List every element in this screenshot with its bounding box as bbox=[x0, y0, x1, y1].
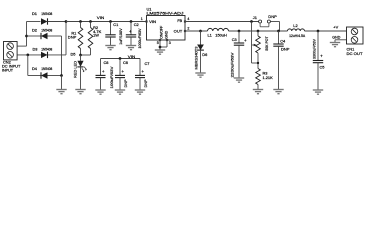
capacitor C6 DNP bbox=[115, 59, 128, 91]
node junction bbox=[25, 35, 28, 38]
node junction bbox=[65, 20, 68, 23]
wire bbox=[26, 22, 28, 47]
wire bbox=[270, 22, 279, 32]
ground bbox=[115, 90, 125, 94]
svg-text:4: 4 bbox=[187, 17, 189, 21]
wire bbox=[28, 55, 41, 76]
ground bbox=[126, 46, 136, 50]
svg-text:L2: L2 bbox=[293, 23, 297, 28]
node junction bbox=[238, 30, 241, 33]
resistor R3 1.21K bbox=[256, 69, 273, 90]
capacitor C4 DNP bbox=[273, 31, 290, 90]
ground bbox=[75, 90, 85, 94]
wire bbox=[160, 40, 167, 47]
wire bbox=[61, 76, 63, 90]
wire bbox=[17, 45, 26, 47]
svg-text:RED LED: RED LED bbox=[73, 61, 78, 78]
svg-text:100uF/63V: 100uF/63V bbox=[110, 66, 114, 89]
svg-text:GND: GND bbox=[164, 31, 169, 39]
svg-text:D6: D6 bbox=[202, 52, 207, 57]
svg-text:D4: D4 bbox=[32, 66, 38, 71]
svg-text:1uF/100V: 1uF/100V bbox=[118, 28, 123, 45]
svg-text:C1: C1 bbox=[113, 22, 118, 27]
svg-text:3: 3 bbox=[169, 41, 171, 45]
svg-text:C8: C8 bbox=[104, 60, 109, 65]
resistor R1 DNP bbox=[68, 22, 83, 56]
LED D5 RED LED bbox=[71, 52, 87, 90]
node junction bbox=[130, 20, 133, 23]
pin 4 bbox=[184, 17, 190, 23]
svg-text:DC OUT: DC OUT bbox=[347, 51, 364, 56]
svg-text:GND: GND bbox=[332, 34, 340, 39]
svg-text:DNP: DNP bbox=[144, 79, 148, 88]
svg-text:INPUT: INPUT bbox=[2, 67, 14, 72]
svg-text:DNP: DNP bbox=[281, 47, 290, 52]
wire bbox=[65, 22, 67, 55]
inductor L2 12uH/4.5A bbox=[288, 23, 306, 38]
wire FB wiper bbox=[252, 22, 259, 64]
svg-text:2200uF/63V: 2200uF/63V bbox=[230, 52, 235, 77]
node junction bbox=[199, 30, 202, 33]
diode D3 1N5408 bbox=[33, 46, 53, 58]
op-amp U1 LM2576HV-ADJ regulator bbox=[147, 7, 186, 40]
pin 5 bbox=[157, 39, 161, 45]
ground bbox=[330, 43, 340, 47]
node junction bbox=[26, 54, 29, 57]
wire VIN rail lower bbox=[101, 58, 141, 60]
inductor L1 150uH bbox=[208, 28, 229, 37]
node junction bbox=[250, 20, 253, 23]
node junction bbox=[79, 20, 82, 23]
node junction bbox=[257, 30, 260, 33]
node junction bbox=[257, 62, 259, 64]
wire bbox=[61, 36, 63, 76]
svg-text:12uH/4.5A: 12uH/4.5A bbox=[289, 33, 305, 38]
wire VIN rail bbox=[66, 21, 146, 23]
svg-text:VIN: VIN bbox=[128, 54, 136, 59]
net label VIN bbox=[97, 15, 105, 20]
jumper J1 DNP bbox=[253, 14, 277, 27]
ground bbox=[253, 90, 263, 94]
ground bbox=[155, 50, 165, 54]
svg-text:D2: D2 bbox=[32, 28, 37, 33]
wire FB net bbox=[185, 21, 259, 23]
node junction bbox=[89, 20, 92, 23]
wire bbox=[335, 40, 347, 43]
svg-text:C2: C2 bbox=[134, 22, 139, 27]
node junction bbox=[79, 54, 82, 57]
net label VIN bbox=[128, 54, 136, 59]
node junction bbox=[109, 20, 112, 23]
connector CN2 DC INPUT terminal block bbox=[2, 42, 21, 73]
svg-text:LM2576HV-ADJ: LM2576HV-ADJ bbox=[147, 10, 184, 15]
node junction bbox=[159, 46, 162, 49]
svg-text:+V: +V bbox=[333, 25, 338, 30]
ground bbox=[105, 46, 115, 50]
pin 1 bbox=[141, 17, 148, 22]
svg-text:VIN: VIN bbox=[97, 15, 105, 20]
svg-text:C7: C7 bbox=[145, 61, 150, 66]
svg-text:1.21K: 1.21K bbox=[263, 75, 274, 80]
connector CN1 DC OUT terminal block bbox=[347, 27, 364, 56]
svg-text:50K POT: 50K POT bbox=[264, 36, 269, 51]
svg-text:VIN: VIN bbox=[149, 19, 156, 24]
wire bbox=[17, 54, 66, 56]
svg-text:1W: 1W bbox=[93, 33, 99, 38]
ground bbox=[56, 90, 66, 94]
wire bbox=[305, 30, 347, 32]
ground bbox=[135, 90, 145, 94]
svg-text:1N5408: 1N5408 bbox=[41, 66, 52, 71]
ground bbox=[313, 90, 323, 94]
capacitor C5 3300uF/63V bbox=[313, 31, 325, 90]
capacitor C2 1000uF/63V bbox=[126, 22, 142, 49]
svg-text:2: 2 bbox=[187, 27, 189, 31]
ground bbox=[195, 73, 205, 77]
svg-text:DNP: DNP bbox=[124, 79, 128, 88]
svg-text:C3: C3 bbox=[232, 37, 237, 42]
node junction bbox=[277, 30, 280, 33]
wire bbox=[159, 40, 161, 50]
svg-text:L1: L1 bbox=[208, 33, 212, 38]
svg-text:150uH: 150uH bbox=[215, 33, 227, 38]
svg-text:J1: J1 bbox=[253, 15, 257, 20]
svg-text:MBRS340T3: MBRS340T3 bbox=[195, 47, 199, 70]
svg-text:5: 5 bbox=[157, 41, 159, 45]
svg-text:D5: D5 bbox=[71, 52, 76, 57]
diode D6 MBRS340 bbox=[195, 31, 208, 73]
svg-text:C4: C4 bbox=[280, 39, 286, 44]
svg-text:1000uF/63V: 1000uF/63V bbox=[137, 28, 142, 48]
pin 3 bbox=[166, 39, 171, 45]
diode D4 1N5408 bbox=[32, 66, 62, 79]
svg-text:DNP: DNP bbox=[268, 14, 277, 19]
svg-text:1N5408: 1N5408 bbox=[41, 46, 52, 51]
wire OUT net bbox=[185, 30, 208, 32]
capacitor C8 100uF/63V bbox=[96, 59, 114, 91]
capacitor C7 DNP bbox=[135, 59, 149, 91]
svg-text:1: 1 bbox=[141, 17, 143, 21]
potentiometer 50K POT bbox=[256, 31, 269, 69]
capacitor C1 1uF/100V bbox=[105, 22, 123, 46]
diode D1 1N5408 bbox=[27, 11, 67, 25]
net label GND bbox=[332, 34, 340, 39]
svg-text:3300uF/63V: 3300uF/63V bbox=[313, 38, 317, 59]
pin 2 bbox=[184, 27, 190, 32]
svg-text:C6: C6 bbox=[123, 60, 128, 65]
svg-text:D3: D3 bbox=[33, 46, 38, 51]
svg-text:1N5408: 1N5408 bbox=[41, 28, 52, 33]
ground bbox=[234, 78, 244, 82]
node junction bbox=[317, 30, 320, 33]
svg-text:1N5408: 1N5408 bbox=[41, 11, 52, 16]
svg-text:D1: D1 bbox=[32, 11, 37, 16]
ground bbox=[273, 90, 283, 94]
svg-text:C5: C5 bbox=[320, 65, 325, 70]
svg-text:FB: FB bbox=[177, 18, 182, 23]
svg-text:DNP: DNP bbox=[68, 34, 77, 39]
capacitor C3 2200uF/63V bbox=[230, 31, 247, 78]
node junction bbox=[60, 74, 63, 77]
diode D2 1N5408 bbox=[27, 28, 62, 40]
svg-text:OUT: OUT bbox=[174, 29, 183, 34]
net label +V bbox=[333, 25, 338, 30]
node junction bbox=[119, 57, 122, 60]
resistor R2 4.7K 1W bbox=[81, 22, 102, 56]
wire bbox=[229, 30, 288, 32]
ground bbox=[95, 90, 105, 94]
